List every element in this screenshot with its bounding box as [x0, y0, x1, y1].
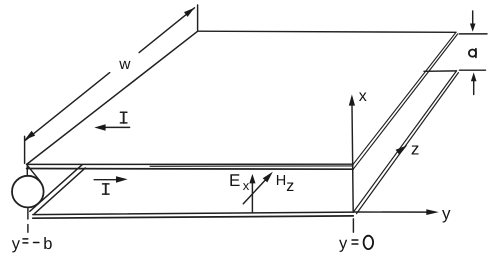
a dimension up arrow line [473, 81, 475, 95]
label I bottom (serif capital drawn) [103, 184, 110, 194]
svg-text:E: E [229, 171, 240, 190]
w dimension tick top [197, 5, 199, 30]
x axis arrowhead [349, 94, 355, 105]
y axis line [354, 211, 428, 213]
w dimension arrowhead upper [184, 8, 195, 17]
y=-b extension line upper segment [27, 209, 29, 219]
label I top (serif capital drawn) [120, 112, 127, 123]
top plate front face top line [27, 163, 354, 165]
bottom plate back edge visible segment [424, 70, 457, 72]
bottom plate current arrow line [94, 179, 116, 181]
bottom plate right edge top line (z direction) [354, 71, 457, 212]
svg-text:H: H [276, 173, 286, 189]
w dimension tick bottom [24, 136, 26, 163]
Ex field arrow line [251, 183, 253, 213]
top plate front face middle line [150, 165, 353, 167]
a label stem [475, 49, 477, 58]
top plate front face bottom line [27, 168, 354, 171]
bottom plate front face top line [33, 212, 354, 215]
x axis line [352, 106, 353, 213]
w dimension arrowhead lower [25, 131, 36, 140]
svg-text:y: y [442, 204, 451, 223]
round wire (circle) [12, 176, 44, 208]
a dimension arrowhead up [471, 72, 477, 81]
a dimension tick top [459, 33, 487, 35]
svg-text:z: z [286, 178, 294, 195]
Hz field arrow line [243, 179, 266, 204]
label y = O : equals bars [352, 240, 358, 244]
top plate right edge bottom line [353, 34, 457, 169]
svg-text:x: x [359, 88, 367, 105]
bottom plate left edge (double line) [30, 165, 83, 212]
y axis arrowhead [426, 209, 439, 215]
svg-text:b: b [43, 235, 52, 253]
bottom plate right edge bottom line [357, 73, 459, 214]
top plate current arrow line [105, 126, 129, 128]
bottom plate front face bottom line [33, 216, 354, 218]
z axis arrowhead [396, 145, 408, 155]
top plate left edge [27, 31, 198, 164]
top current arrowhead [94, 124, 105, 130]
svg-text:x: x [243, 178, 250, 193]
a dimension tick bottom [460, 69, 486, 71]
svg-text:z: z [411, 139, 420, 158]
wire tangent line to top plate corner [28, 166, 41, 182]
Ex arrowhead [249, 174, 255, 184]
y=0 extension line below origin [352, 219, 354, 232]
label y = - b : equals bars [23, 239, 39, 243]
short vertical at top plate front-left corner [26, 165, 28, 176]
Hz arrowhead [263, 172, 273, 183]
top plate back edge [198, 31, 456, 32]
label y = O : O drawn as ellipse [364, 236, 374, 249]
w dimension line lower segment [26, 73, 110, 141]
y=-b extension line lower segment [27, 225, 29, 233]
a dimension down arrow line [472, 11, 474, 25]
label y = - b : minus [34, 242, 39, 244]
top plate right edge top line [353, 32, 456, 164]
bottom current arrowhead [116, 176, 128, 182]
svg-text:y: y [339, 235, 348, 253]
w dimension line upper segment [139, 8, 194, 53]
a dimension arrowhead down [470, 24, 476, 32]
a label bowl [469, 50, 476, 57]
svg-text:w: w [118, 56, 131, 73]
svg-text:y: y [12, 235, 21, 253]
